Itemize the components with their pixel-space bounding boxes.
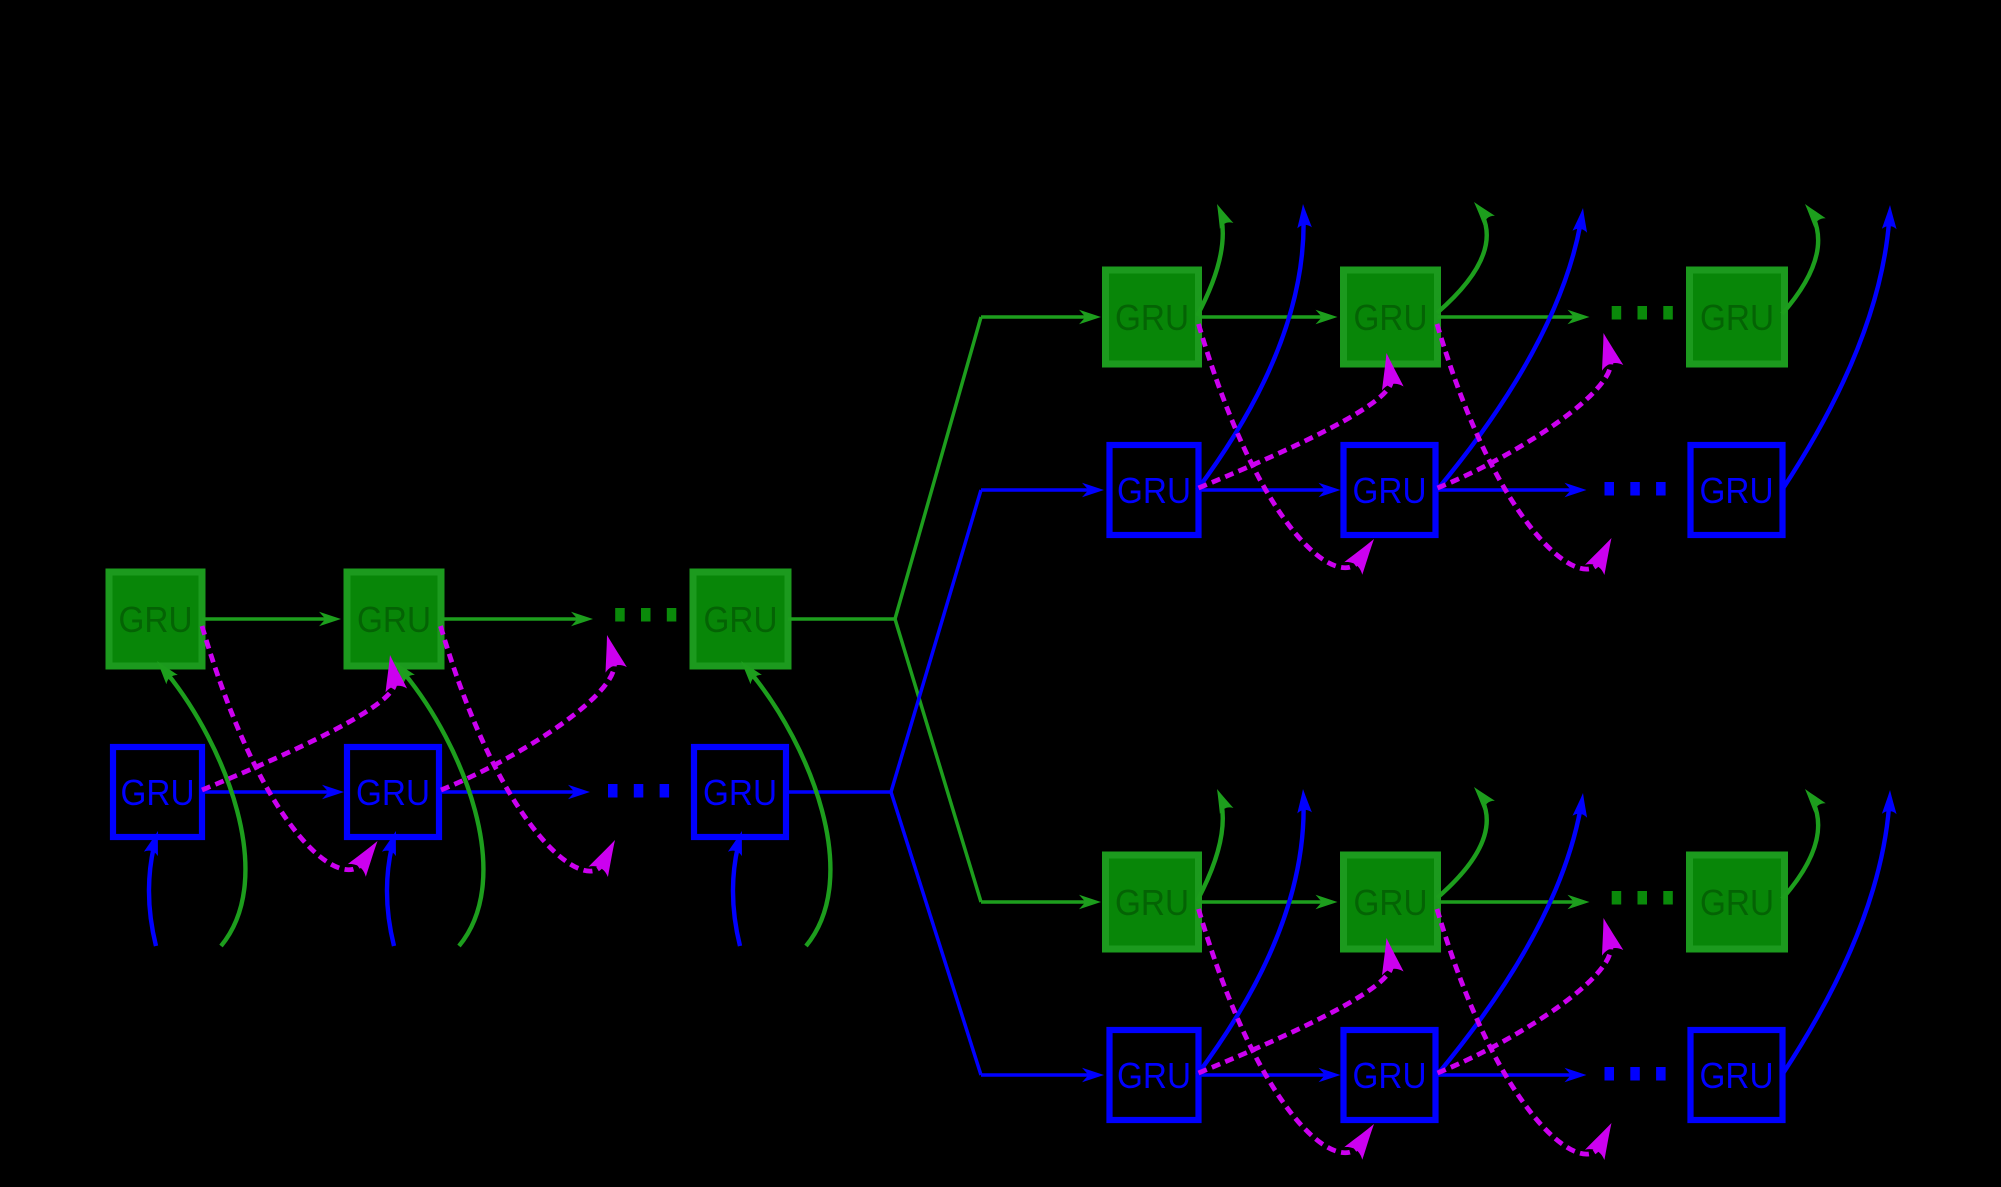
decoder-top blue GRU box 3 <box>1691 445 1783 535</box>
decoder-bottom green arrow box2->dots <box>1438 900 1575 904</box>
decoder-bottom magenta dashed arrow blue2->dots <box>1438 944 1611 1073</box>
decoder-bottom green arrow box1->box2 <box>1199 900 1323 904</box>
encoder blue input arrow column 3 <box>733 847 740 947</box>
encoder green GRU box 3 <box>693 572 788 666</box>
decoder-bottom green GRU box 2 <box>1344 855 1438 949</box>
encoder blue ellipsis dots <box>608 784 618 798</box>
encoder blue arrow box2->dots <box>439 790 575 794</box>
decoder-top green ellipsis dots <box>1612 306 1622 320</box>
decoder-bottom blue arrow box1->box2 <box>1199 1073 1326 1077</box>
decoder-top green output arrow column 2 <box>1437 216 1487 314</box>
decoder-top blue output arrow column 3 <box>1782 221 1889 490</box>
green context wire from encoder green box3 <box>788 617 895 621</box>
svg-text:GRU: GRU <box>357 599 431 640</box>
svg-text:GRU: GRU <box>1700 297 1774 338</box>
encoder magenta dashed arrow green1->blue2 <box>202 626 362 870</box>
decoder-bottom blue ellipsis dots <box>1605 1067 1615 1081</box>
encoder green input arrow column 2 <box>404 673 483 946</box>
svg-text:GRU: GRU <box>1354 882 1428 923</box>
encoder blue input arrow column 1 <box>149 847 156 947</box>
decoder-top magenta dashed arrow blue2->dots <box>1438 359 1611 488</box>
decoder-bottom blue GRU box 2 <box>1344 1030 1436 1120</box>
decoder-top magenta dashed arrow green2->dots <box>1437 324 1599 569</box>
decoder-bottom magenta dashed arrow blue1->green2 <box>1199 965 1392 1073</box>
encoder blue GRU box 1 <box>113 747 202 837</box>
blue context arrow into decoder-bottom blue box1 <box>981 1073 1089 1077</box>
green context arrow into decoder-top green box1 <box>981 315 1086 319</box>
svg-text:GRU: GRU <box>356 772 430 813</box>
blue context wire from encoder blue box3 <box>786 790 891 794</box>
encoder magenta dashed arrow blue2->dots <box>441 661 614 790</box>
decoder-top blue ellipsis dots <box>1605 482 1615 496</box>
decoder-top green output arrow column 3 <box>1782 218 1818 314</box>
decoder-top blue GRU box 1 <box>1110 445 1199 535</box>
svg-text:GRU: GRU <box>1353 470 1427 511</box>
decoder-top blue output arrow column 1 <box>1197 220 1304 490</box>
decoder-bottom blue output arrow column 3 <box>1782 806 1889 1075</box>
decoder-bottom blue GRU box 3 <box>1691 1030 1783 1120</box>
decoder-bottom green ellipsis dots <box>1612 891 1622 905</box>
encoder green input arrow column 3 <box>751 673 830 946</box>
decoder-top blue output arrow column 2 <box>1437 224 1581 490</box>
svg-text:GRU: GRU <box>1354 297 1428 338</box>
decoder-bottom magenta dashed arrow green2->dots <box>1437 909 1599 1154</box>
decoder-bottom green output arrow column 2 <box>1437 801 1487 899</box>
decoder-bottom green GRU box 3 <box>1690 855 1785 949</box>
encoder blue arrow box1->box2 <box>202 790 329 794</box>
encoder magenta dashed arrow green2->dots <box>441 626 603 871</box>
svg-text:GRU: GRU <box>1115 882 1189 923</box>
decoder-top green GRU box 3 <box>1690 270 1785 364</box>
encoder blue GRU box 3 <box>694 747 786 837</box>
decoder-bottom blue GRU box 1 <box>1110 1030 1199 1120</box>
decoder-bottom green GRU box 1 <box>1106 855 1199 949</box>
decoder-top blue GRU box 2 <box>1344 445 1436 535</box>
svg-text:GRU: GRU <box>704 599 778 640</box>
decoder-bottom magenta dashed arrow green1->blue2 <box>1199 909 1359 1153</box>
encoder blue GRU box 2 <box>347 747 439 837</box>
decoder-top green output arrow column 1 <box>1197 219 1223 316</box>
svg-text:GRU: GRU <box>1115 297 1189 338</box>
encoder green arrow box1->box2 <box>202 617 326 621</box>
decoder-top magenta dashed arrow green1->blue2 <box>1199 324 1359 568</box>
blue context wire diagonal up <box>891 490 981 792</box>
svg-text:GRU: GRU <box>1353 1055 1427 1096</box>
encoder blue input arrow column 2 <box>387 847 394 947</box>
decoder-bottom blue output arrow column 1 <box>1197 805 1304 1075</box>
encoder green arrow box2->dots <box>441 617 578 621</box>
encoder green input arrow column 1 <box>167 673 245 946</box>
svg-text:GRU: GRU <box>1700 470 1774 511</box>
decoder-top green GRU box 2 <box>1344 270 1438 364</box>
encoder magenta dashed arrow blue1->green2 <box>202 682 395 790</box>
decoder-top blue arrow box1->box2 <box>1199 488 1326 492</box>
decoder-top blue arrow box2->dots <box>1436 488 1572 492</box>
green context arrow into decoder-bottom green box1 <box>981 900 1086 904</box>
encoder green GRU box 1 <box>109 572 202 666</box>
decoder-top green GRU box 1 <box>1106 270 1199 364</box>
encoder green ellipsis dots <box>615 608 625 622</box>
decoder-top green arrow box1->box2 <box>1199 315 1323 319</box>
encoder green GRU box 2 <box>347 572 441 666</box>
svg-text:GRU: GRU <box>1700 882 1774 923</box>
green context wire diagonal up <box>895 317 981 619</box>
decoder-bottom green output arrow column 1 <box>1197 804 1223 901</box>
green context wire diagonal down <box>895 619 981 902</box>
decoder-bottom green output arrow column 3 <box>1782 803 1818 899</box>
svg-text:GRU: GRU <box>703 772 777 813</box>
svg-text:GRU: GRU <box>1117 470 1191 511</box>
decoder-bottom blue output arrow column 2 <box>1437 809 1581 1075</box>
svg-text:GRU: GRU <box>1700 1055 1774 1096</box>
svg-text:GRU: GRU <box>1117 1055 1191 1096</box>
blue context wire diagonal down <box>891 792 981 1075</box>
blue context arrow into decoder-top blue box1 <box>981 488 1089 492</box>
decoder-top magenta dashed arrow blue1->green2 <box>1199 380 1392 488</box>
svg-text:GRU: GRU <box>119 599 193 640</box>
decoder-bottom blue arrow box2->dots <box>1436 1073 1572 1077</box>
svg-text:GRU: GRU <box>121 772 195 813</box>
decoder-top green arrow box2->dots <box>1438 315 1575 319</box>
